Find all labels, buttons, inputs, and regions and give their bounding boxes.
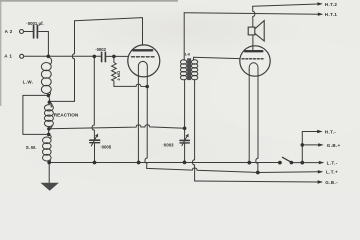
svg-text:1-6: 1-6 [185, 52, 191, 56]
svg-text:H.T.2: H.T.2 [325, 2, 338, 7]
node GB+ tap [301, 143, 305, 147]
capacitor C1 .0001uf plates [33, 25, 35, 38]
node reaction top [48, 100, 52, 104]
V2 anode lead [252, 35, 254, 50]
HT-/GB+ vertical [301, 132, 303, 163]
svg-text:·0003: ·0003 [163, 143, 175, 148]
node SW bottom / earth [47, 161, 51, 165]
svg-text:G.B.-: G.B.- [325, 180, 338, 185]
V2 anode bar [245, 50, 262, 52]
svg-text:L.W.: L.W. [23, 80, 34, 85]
transformer T1 core [187, 58, 191, 80]
wire grid return with hop over left filament leg [114, 84, 147, 86]
svg-text:·0005: ·0005 [100, 144, 112, 149]
VC1 bottom lead [94, 144, 96, 163]
VC1 arrow [91, 137, 96, 146]
V1 left filament leg [137, 69, 139, 162]
wire C2 to V1 grid [106, 55, 128, 57]
wire C1 to A1 line [39, 32, 49, 57]
node grid return on leg [145, 85, 149, 89]
rail LT+ with hop over transformer secondary lead [147, 168, 319, 173]
line GB+ [302, 144, 320, 146]
resistor R1 2Mohm zigzag [112, 56, 117, 86]
speaker box [248, 27, 255, 35]
svg-text:A 2: A 2 [5, 29, 13, 34]
wire tuning cap drop with hop over reaction rail [92, 56, 94, 139]
V2 left filament leg [248, 70, 250, 163]
wire ground lead [48, 163, 50, 184]
switch pivot dot [278, 161, 282, 165]
VC2 arrowhead [186, 134, 189, 138]
tube V1 envelope [128, 45, 160, 77]
svg-text:L.T.-: L.T.- [327, 161, 338, 166]
node V2 right leg on rail2 [256, 171, 260, 175]
node VC1 bottom [93, 161, 97, 165]
wire anode top line [75, 18, 143, 45]
paper background [0, 0, 360, 191]
wire LW tap loop [23, 96, 49, 135]
node HT-/GB+ tap on rail1 [300, 161, 304, 165]
V2 filament loop [249, 63, 258, 70]
svg-text:2 MΩ: 2 MΩ [116, 71, 121, 80]
svg-text:A 1: A 1 [4, 54, 12, 59]
node SW top [47, 133, 51, 137]
rail LT- / earth [49, 162, 319, 164]
terminal A1 [20, 54, 24, 58]
node tuning cap tap [93, 55, 97, 59]
node LW bottom [47, 94, 51, 98]
svg-text:G.B.+: G.B.+ [327, 143, 341, 148]
rail GB- [195, 181, 319, 182]
switch contact dot [290, 161, 294, 165]
V1 anode bar [133, 49, 152, 51]
wire link LW to reaction [48, 95, 49, 102]
T1 secondary loops [191, 60, 197, 80]
V2 right filament leg with hop over rail1 [256, 70, 258, 173]
svg-text:·0001 μf.: ·0001 μf. [26, 21, 43, 26]
wire A2 to C1 [24, 31, 33, 33]
variable capacitor VC1 .0005 plates [90, 139, 100, 141]
capacitor C2 .0002 plates [101, 52, 103, 61]
tube V2 envelope [240, 46, 270, 76]
T1 secondary top lead to V2 grid [194, 57, 240, 60]
V1 right filament leg hop over rail1, corner to rail2 [145, 69, 147, 168]
ground symbol [40, 183, 59, 191]
HT2 drop to speaker with hop over HT1 [253, 6, 255, 27]
terminal A2 [20, 30, 24, 34]
line HT2 [253, 4, 318, 6]
line HT1 [184, 13, 319, 15]
svg-text:S.W.: S.W. [26, 145, 37, 150]
T1 primary bottom lead [184, 80, 186, 129]
coil LW loops [48, 56, 52, 64]
V2 grid dashes [242, 58, 265, 60]
switch blade [282, 157, 291, 162]
node grid cap / leak [112, 55, 116, 59]
wire A1 grid line [24, 55, 101, 57]
node V1 left leg on rail1 [137, 161, 141, 165]
svg-text:H.T.-: H.T.- [325, 129, 337, 134]
node T1 primary / VC2 / reaction rail [183, 127, 187, 131]
left scan edge shadow [0, 0, 1, 106]
top scan edge shadow [0, 0, 178, 2]
node A1/C1/LW junction [47, 55, 51, 59]
svg-text:H.T.1: H.T.1 [325, 12, 338, 17]
line HT- [302, 131, 318, 133]
wire link reaction to SW [48, 129, 50, 135]
wire reaction rail with hops over V1 filament legs [49, 125, 185, 129]
VC1 arrowhead [95, 134, 98, 138]
node reaction bottom [47, 127, 51, 131]
svg-text:·0002: ·0002 [95, 47, 106, 52]
VC2 arrow [182, 136, 187, 145]
node V2 left leg on rail1 [247, 161, 251, 165]
coil REACTION loops [49, 102, 52, 107]
variable capacitor VC2 .0003 plates [180, 139, 189, 141]
arrowheads right terminals [317, 2, 324, 184]
wire anode/reaction vertical with hop over A1 line [50, 21, 75, 102]
coil SW loops [49, 134, 52, 138]
svg-text:L.T.+: L.T.+ [326, 170, 338, 175]
svg-text:REACTION: REACTION [54, 113, 79, 118]
speaker horn [255, 21, 264, 41]
T1 secondary bottom lead with hop over rail1 [192, 80, 194, 181]
node VC2 bottom [183, 161, 187, 165]
transformer T1 primary top lead [183, 13, 185, 60]
VC2 leads [184, 128, 186, 162]
T1 primary loops [180, 60, 186, 80]
V1 grid dashes [132, 56, 156, 58]
V1 filament loop [138, 61, 147, 69]
